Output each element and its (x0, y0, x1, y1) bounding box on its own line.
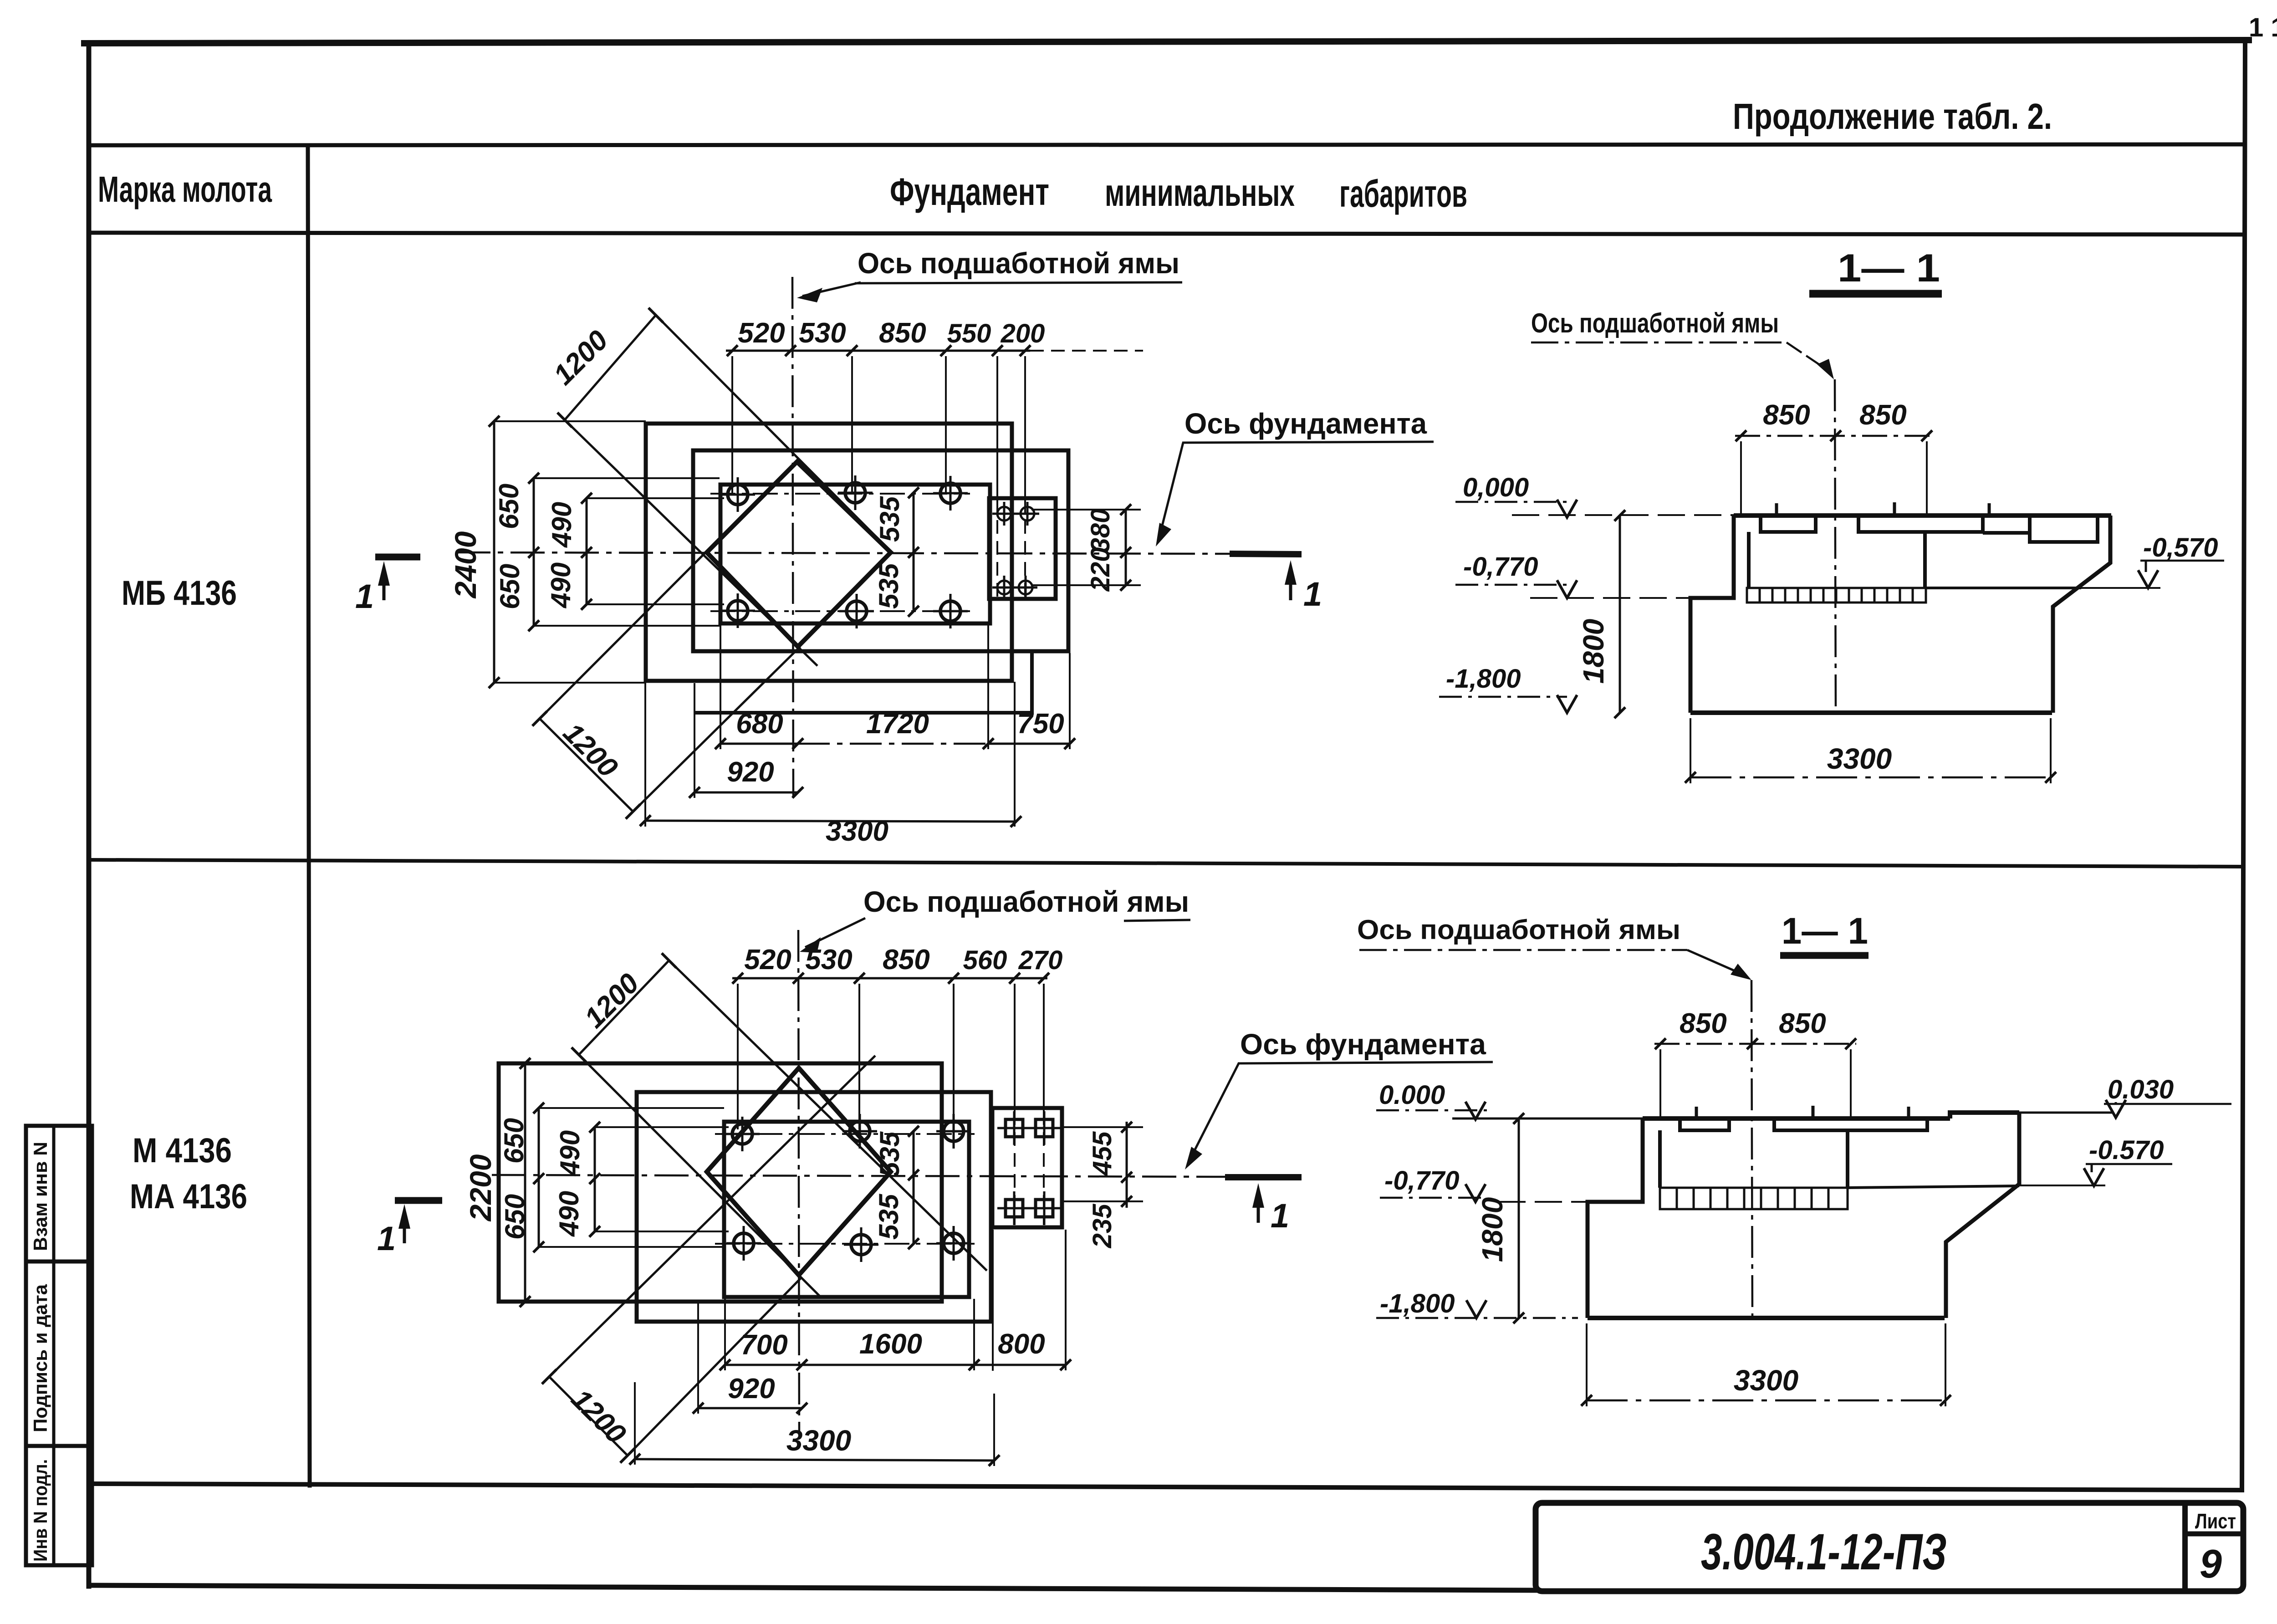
vertical dim 490 490 (586, 498, 588, 604)
diagonal dim 1200 upper (579, 960, 669, 1055)
svg-text:850: 850 (1763, 399, 1810, 431)
plan view МБ4136 (355, 247, 1434, 847)
svg-text:455: 455 (1087, 1131, 1117, 1176)
section arrow right (1289, 568, 1292, 600)
svg-text:-0.570: -0.570 (2089, 1135, 2164, 1165)
svg-text:235: 235 (1087, 1204, 1117, 1249)
svg-text:850: 850 (1779, 1008, 1826, 1039)
frame top line (84, 40, 2249, 43)
svg-text:1: 1 (355, 577, 374, 615)
svg-text:-0,570: -0,570 (2143, 533, 2218, 562)
plan view М4136 МА4136 (377, 885, 1493, 1466)
svg-text:680: 680 (736, 708, 783, 740)
diagonal dim 1200 lower (549, 1377, 628, 1455)
svg-text:850: 850 (879, 317, 926, 349)
svg-text:520: 520 (738, 317, 785, 349)
leader to axis (1787, 342, 1827, 370)
recess pocket right (1774, 1118, 1927, 1130)
leader to axis (1687, 950, 1743, 975)
svg-text:490: 490 (555, 1130, 585, 1176)
svg-text:1 11: 1 11 (2249, 13, 2277, 42)
svg-text:минимальных: минимальных (1105, 171, 1295, 214)
anvil pit diamond (707, 462, 891, 647)
svg-text:650: 650 (494, 484, 524, 529)
pit wall left (1747, 532, 1751, 588)
svg-text:0,000: 0,000 (1463, 473, 1529, 502)
diagonal extension line C (669, 960, 987, 1271)
vertical dim 455 235 right (1126, 1122, 1128, 1208)
svg-text:535: 535 (874, 1131, 905, 1177)
svg-text:3300: 3300 (1734, 1364, 1798, 1397)
extension verticals from top dims (732, 356, 1025, 499)
svg-text:3300: 3300 (826, 816, 888, 847)
foundation axis horizontal dash-dot (456, 552, 1230, 554)
foundation rect A (646, 424, 1012, 681)
diagonal extension bottom-right (633, 647, 800, 812)
body right profile (2053, 516, 2110, 713)
svg-text:535: 535 (873, 1193, 904, 1240)
pit axis vertical dash-dot (792, 277, 793, 797)
bottom dim 920 (698, 1407, 802, 1410)
svg-text:490: 490 (546, 562, 576, 608)
bottom dim 3300 (1690, 776, 2051, 779)
svg-text:920: 920 (727, 756, 774, 788)
svg-text:650: 650 (500, 1194, 530, 1240)
anchor bolt stubs (1696, 1106, 1909, 1118)
svg-text:Инв N подл.: Инв N подл. (30, 1459, 51, 1562)
ground line left dashed (1512, 514, 1734, 516)
extension verticals bottom dims (645, 625, 1070, 827)
timber grillage strip (1660, 1188, 1848, 1209)
extension stubs left dims (525, 1063, 729, 1302)
svg-text:-0,770: -0,770 (1463, 552, 1538, 582)
svg-text:М 4136: М 4136 (133, 1131, 232, 1170)
section 1-1 row 2 (1357, 910, 2231, 1406)
svg-text:Ось фундамента: Ось фундамента (1184, 407, 1427, 440)
vertical dim 2200 (524, 1063, 526, 1302)
table column divider (308, 145, 310, 1486)
cut line bold left (375, 554, 420, 561)
svg-text:0.030: 0.030 (2108, 1075, 2174, 1104)
svg-text:490: 490 (554, 1191, 584, 1237)
extension verticals bottom dims (635, 1230, 1066, 1466)
svg-text:850: 850 (1680, 1008, 1726, 1039)
anchor bolt stubs (1777, 502, 1989, 516)
body left profile (1588, 1118, 1643, 1318)
svg-text:535: 535 (874, 495, 905, 542)
svg-text:3.004.1-12-ПЗ: 3.004.1-12-ПЗ (1701, 1523, 1947, 1580)
ledge right (1848, 1186, 2019, 1188)
svg-text:1720: 1720 (866, 708, 929, 740)
body right profile (1946, 1113, 2019, 1318)
svg-text:Фундамент: Фундамент (890, 170, 1049, 213)
pit wall right (1846, 1130, 1849, 1188)
body left profile (1690, 516, 1734, 713)
svg-text:Взам инв N: Взам инв N (30, 1142, 51, 1251)
svg-text:920: 920 (728, 1373, 775, 1404)
diagonal extension line A (540, 461, 797, 719)
recess pocket left (1761, 516, 1816, 532)
anchor plate rect C (724, 1122, 969, 1297)
svg-text:1: 1 (1271, 1197, 1289, 1235)
dim 850 850 (1654, 1043, 1856, 1045)
svg-text:1: 1 (1303, 575, 1322, 613)
svg-text:800: 800 (998, 1328, 1045, 1360)
svg-text:3300: 3300 (786, 1424, 851, 1457)
svg-text:490: 490 (546, 502, 577, 548)
svg-text:Марка молота: Марка молота (98, 169, 272, 209)
svg-text:850: 850 (883, 944, 929, 975)
svg-text:270: 270 (1018, 945, 1063, 975)
protrusion square bolts (997, 1111, 1061, 1225)
extension verticals from 850 dim (1660, 1049, 1851, 1120)
table bottom line (89, 1484, 2242, 1490)
title block box (1536, 1503, 2243, 1591)
protrusion block (992, 1108, 1062, 1227)
diagonal dim 1200 lower (540, 719, 633, 812)
bottom dim 3300 (1587, 1399, 1945, 1402)
vertical dim 535 535 (913, 1131, 915, 1244)
svg-text:-1,800: -1,800 (1446, 664, 1521, 694)
svg-text:550: 550 (947, 319, 991, 348)
cut line bold right (1230, 554, 1302, 554)
table header bottom line (89, 233, 2243, 235)
right slab block (2030, 516, 2098, 542)
svg-text:560: 560 (963, 945, 1007, 975)
vertical dim 1800 (1619, 516, 1621, 713)
vertical dim 490 490 (594, 1127, 596, 1231)
left stamp column boxes (26, 1126, 92, 1565)
body bottom (1690, 710, 2052, 715)
cut line bold left (395, 1197, 442, 1204)
bolts row1 (725, 1114, 971, 1151)
svg-text:3300: 3300 (1827, 742, 1892, 775)
svg-text:1: 1 (377, 1220, 396, 1257)
pit axis vertical dash-dot (798, 930, 799, 1435)
anchor plate rect C (720, 485, 990, 623)
body top right raised (1950, 1113, 2019, 1118)
body top surface (1734, 513, 2111, 518)
svg-text:Ось подшаботной ямы: Ось подшаботной ямы (858, 247, 1179, 280)
svg-text:-0,770: -0,770 (1384, 1166, 1459, 1195)
vertical dim 1800 (1518, 1118, 1520, 1318)
svg-text:Ось подшаботной ямы: Ось подшаботной ямы (863, 885, 1189, 918)
bottom dim 920 (694, 792, 798, 794)
protrusion block (989, 498, 1056, 599)
vertical dim 535 535 (913, 493, 915, 611)
svg-text:1— 1: 1— 1 (1838, 246, 1940, 290)
svg-text:2400: 2400 (449, 531, 482, 599)
foundation axis horizontal dash-dot (492, 1175, 1225, 1177)
svg-text:650: 650 (499, 1118, 529, 1164)
leader arrow to pit axis (802, 282, 861, 296)
recess pocket left (1680, 1118, 1729, 1130)
extension stubs left dims (494, 421, 724, 683)
svg-text:Ось подшаботной ямы: Ось подшаботной ямы (1357, 914, 1680, 945)
bolts row1 (720, 475, 968, 512)
diagonal extension bottom-right (628, 1277, 802, 1455)
axis vertical dash-dot (1835, 379, 1836, 713)
sheet bottom line (89, 1585, 1538, 1590)
ground line left (1452, 1118, 1643, 1120)
table top line (89, 144, 2244, 145)
dashed step level line left (1498, 1201, 1588, 1203)
top dimension line 520 530 850 560 270 (732, 977, 1047, 980)
svg-text:Продолжение табл. 2.: Продолжение табл. 2. (1733, 96, 2052, 137)
diagonal extension line A (549, 1056, 875, 1377)
vertical dim 2400 (493, 421, 495, 683)
foundation rect A (499, 1063, 942, 1302)
bottom dim 700 (725, 1364, 802, 1366)
svg-text:850: 850 (1859, 399, 1906, 431)
table row divider (89, 860, 2243, 867)
svg-text:МА 4136: МА 4136 (130, 1177, 247, 1216)
svg-text:1600: 1600 (859, 1328, 922, 1360)
cut line bold right (1225, 1174, 1302, 1180)
svg-text:МБ 4136: МБ 4136 (122, 574, 237, 613)
axis vertical dash-dot (1751, 980, 1752, 1318)
pit wall left (1658, 1130, 1662, 1188)
recess pocket right (1858, 516, 2030, 533)
dim 850 850 (1735, 435, 1932, 437)
bottom dim 3300 (635, 1459, 994, 1461)
bolts row2 (720, 593, 968, 628)
svg-text:Ось подшаботной ямы: Ось подшаботной ямы (1531, 308, 1779, 338)
section arrow left (403, 1212, 406, 1243)
bottom dim 3300 (645, 821, 1016, 822)
dashed step level line left (1530, 597, 1690, 599)
svg-text:Ось фундамента: Ось фундамента (1240, 1028, 1486, 1061)
svg-text:650: 650 (495, 564, 525, 609)
svg-text:Подпись и дата: Подпись и дата (30, 1284, 51, 1432)
foundation rect B (693, 450, 1068, 651)
foundation rect B (637, 1092, 991, 1322)
bottom dim 1600 (802, 1364, 974, 1366)
bottom dim 750 (988, 743, 1070, 745)
svg-text:9: 9 (2200, 1541, 2222, 1586)
svg-text:2200: 2200 (464, 1154, 497, 1222)
section arrow right (1257, 1191, 1260, 1223)
bottom dim 800 (974, 1364, 1066, 1366)
vertical dim 380 220 right (1125, 510, 1127, 585)
body bottom (1588, 1316, 1945, 1320)
svg-text:-1,800: -1,800 (1380, 1289, 1455, 1318)
svg-text:530: 530 (799, 317, 846, 349)
top ext right thin (2019, 1112, 2114, 1114)
diagonal extension line C (656, 315, 893, 553)
svg-text:380: 380 (1086, 509, 1115, 553)
pit wall right (1923, 532, 1927, 588)
svg-text:200: 200 (1001, 319, 1045, 348)
frame right line (2242, 40, 2245, 1490)
svg-text:1800: 1800 (1476, 1197, 1509, 1262)
bottom dim 1720 (798, 743, 988, 745)
vertical dim 650 650 (533, 478, 535, 626)
timber grillage strip (1747, 588, 1926, 603)
svg-text:0.000: 0.000 (1379, 1080, 1445, 1110)
top dimension line 520 530 850 550 200 (726, 350, 1030, 352)
section 1-1 row 1 (1439, 246, 2224, 783)
frame left line (87, 43, 92, 1586)
section arrow left (383, 569, 386, 600)
svg-text:535: 535 (873, 562, 904, 609)
bolt row dash lines (710, 493, 970, 495)
diagonal extension line B (579, 1055, 820, 1296)
body top surface (1643, 1116, 1950, 1121)
diagonal extension line B (565, 420, 817, 666)
svg-text:Лист: Лист (2195, 1509, 2236, 1533)
svg-text:1— 1: 1— 1 (1782, 910, 1868, 952)
bolt row dash lines (715, 1133, 975, 1135)
diagonal dim 1200 upper (565, 315, 656, 420)
anvil pit diamond (707, 1068, 891, 1275)
ledge right of pit (1926, 587, 2081, 589)
svg-text:530: 530 (805, 944, 852, 975)
extension verticals from top dims (738, 984, 1044, 1129)
protrusion bolts (992, 502, 1039, 599)
svg-text:габаритов: габаритов (1339, 172, 1467, 215)
svg-text:520: 520 (744, 944, 791, 975)
vertical dim 650 650 (538, 1108, 540, 1247)
svg-text:750: 750 (1017, 708, 1064, 740)
svg-text:1800: 1800 (1577, 619, 1610, 684)
svg-text:700: 700 (740, 1329, 787, 1361)
bolts row2 (726, 1226, 971, 1262)
bottom shelf outline (695, 652, 1032, 713)
bottom dim 680 (720, 743, 798, 745)
extension verticals from 850 dim (1741, 441, 1927, 515)
